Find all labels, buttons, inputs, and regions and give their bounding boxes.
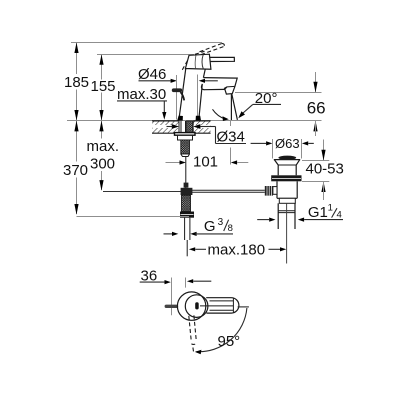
pull rod knob [172,88,182,92]
knob housing [273,187,277,195]
svg-text:185: 185 [64,74,89,91]
svg-text:8: 8 [228,223,233,234]
svg-text:66: 66 [307,99,326,118]
dimension line 185/370 [74,43,78,215]
plug cap [278,156,296,160]
svg-text:4: 4 [337,210,342,221]
svg-text:1: 1 [328,202,333,213]
white channel for hole arrows [153,125,179,128]
svg-text:95°: 95° [218,333,241,350]
20 degree arc [213,109,226,119]
svg-text:Ø63: Ø63 [275,136,300,151]
370 bottom extension [77,216,190,218]
long rod line [103,191,181,193]
base flare right [196,116,201,121]
top view nub [165,305,179,308]
vertical line below aerator [230,94,232,120]
hose collar above fitting [184,183,189,188]
dim Ø63 [251,142,266,144]
mounting nut [178,135,193,140]
body [276,181,278,198]
dashed raised head top [195,51,205,54]
top view cap circle [185,295,208,318]
svg-text:370: 370 [63,162,88,179]
drain assembly [265,156,302,264]
supply hoses [184,218,186,240]
extension line top 155 [97,54,194,56]
spout outlet reference line [235,92,322,94]
dim G1 1/4 arrows [257,219,269,221]
deck section right [193,121,210,133]
knurled knob [265,186,273,196]
svg-text:G1: G1 [308,204,328,221]
shank hose [180,121,182,133]
hose diameter arrows [164,233,173,235]
Ø46 extension ticks [176,75,178,120]
svg-text:max.: max. [87,138,120,155]
dim 66 [315,72,317,93]
dim 40-53 [302,160,329,162]
slot [195,302,199,309]
body left edge [179,68,186,119]
extension line top 185 [71,42,222,44]
base flare left [177,116,183,121]
svg-text:Ø34: Ø34 [217,128,245,145]
rod fitting [181,188,193,195]
hose line to fitting [185,157,187,189]
svg-text:G: G [204,218,216,235]
step rings [277,197,297,199]
20 degree slant line [232,94,238,120]
dim 101 [166,162,181,164]
braided hose upper [181,140,190,154]
svg-text:101: 101 [193,154,218,171]
dimension line 155/max300 [99,55,103,191]
svg-text:155: 155 [91,78,116,95]
svg-text:40-53: 40-53 [306,160,344,177]
dashed raised lever [200,43,223,51]
lever bar [210,57,235,61]
centerline [286,203,288,263]
flange [274,159,300,161]
threaded stud [187,121,193,135]
svg-text:300: 300 [90,156,115,173]
svg-text:3: 3 [218,217,224,228]
aerator detail [225,86,235,89]
deck section left [152,121,179,133]
washer [175,133,196,136]
deck surface reference line [67,120,322,122]
dim max180 [189,247,195,251]
label Ø34 with leader [215,127,217,144]
faucet head [185,54,211,69]
braided hose lower [182,195,191,211]
supply nut G3/8 [180,212,194,218]
95 deg arc [197,308,247,352]
top view body circle [177,292,205,320]
top view lever [206,298,239,313]
95 deg start extension [238,306,249,308]
dashed raised head left [182,59,188,70]
dashed lever swung [189,316,192,342]
tailpipe [277,203,279,229]
svg-text:max.180: max.180 [208,242,266,259]
body right edge [203,69,205,77]
seal ring [271,175,301,181]
spout [203,78,237,95]
hole Ø34 arrows [172,124,179,129]
pop-up rod double line [192,189,265,191]
